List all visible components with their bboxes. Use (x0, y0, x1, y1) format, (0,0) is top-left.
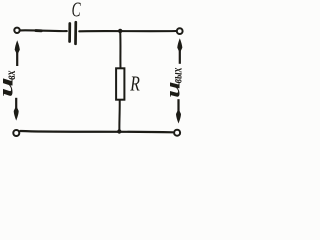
terminal output top (177, 28, 183, 34)
capacitor C left plate (68, 24, 71, 42)
wire top-left (input terminal to capacitor) (20, 29, 67, 32)
wire resistor branch upper (119, 31, 121, 69)
svg-text:вх: вх (2, 71, 18, 80)
svg-text:вых: вых (169, 68, 185, 84)
wire bottom rail (20, 131, 173, 132)
terminal output bottom (174, 130, 180, 136)
output voltage arrow down (176, 99, 181, 123)
input voltage arrow down (14, 98, 19, 121)
svg-text:C: C (72, 0, 81, 21)
svg-text:u: u (162, 81, 184, 97)
wire thick blob on top-left wire (36, 29, 42, 32)
terminal input top (14, 28, 19, 33)
capacitor C right plate (74, 22, 77, 44)
wire top-right (capacitor to output terminal) (79, 30, 176, 32)
wire resistor branch lower (118, 100, 120, 132)
input voltage arrow up (15, 40, 20, 66)
node junction top (dot) (118, 29, 122, 33)
terminal input bottom (13, 130, 19, 136)
resistor R body (116, 68, 124, 99)
node junction bottom (dot) (117, 129, 121, 133)
output voltage arrow up (177, 38, 182, 64)
svg-text:R: R (129, 72, 140, 96)
